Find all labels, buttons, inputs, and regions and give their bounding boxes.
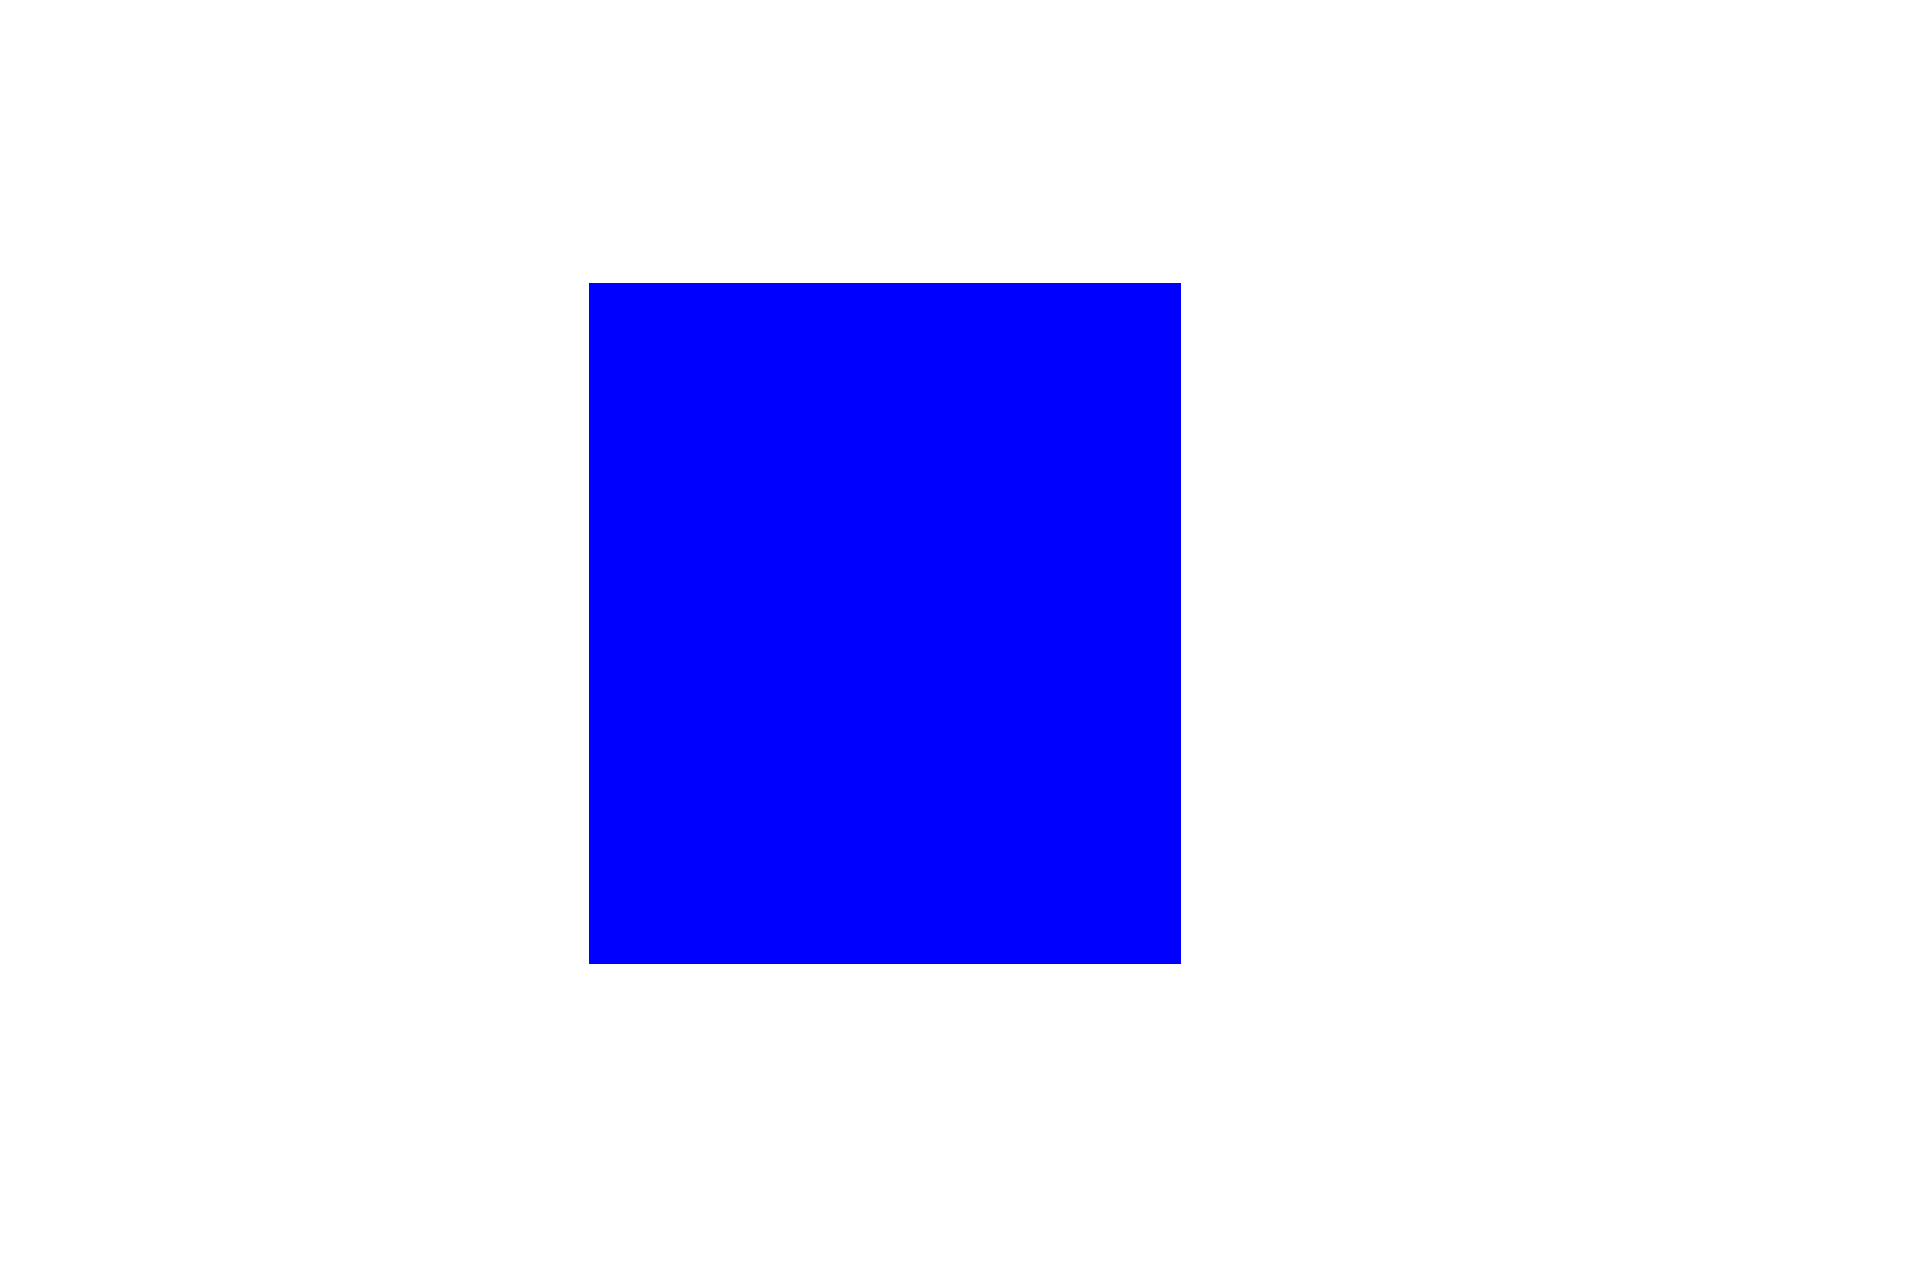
blue rectangle [589, 283, 1181, 964]
